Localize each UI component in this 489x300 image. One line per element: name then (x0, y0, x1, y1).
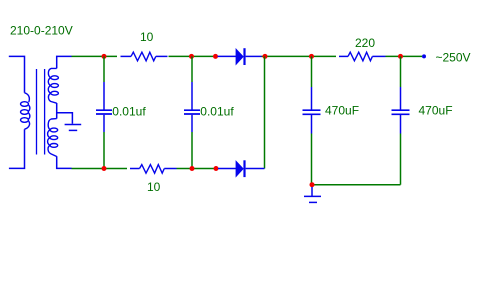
transformer T1 secondary top lead (57, 56, 72, 68)
svg-text:470uF: 470uF (325, 104, 359, 118)
resistor R3 220 left lead (339, 55, 348, 57)
transformer T1 secondary lower coil (48, 119, 58, 157)
capacitor C1 bottom lead (103, 115, 105, 132)
svg-text:0.01uf: 0.01uf (112, 104, 146, 118)
wire top rail right of D1 (green) (262, 55, 337, 57)
node junction dot before D2 (214, 166, 219, 171)
transformer T1 secondary center lead (56, 103, 58, 119)
transformer T1 primary bottom input stub wire (9, 129, 25, 168)
transformer T1 core (37, 69, 45, 155)
node junction dot bridge output (263, 54, 268, 59)
node junction dot top of C1 (102, 54, 107, 59)
capacitor C3 470uF top lead (311, 56, 313, 87)
wire top rail far right (green) (386, 55, 423, 57)
resistor R1 10 left lead (121, 55, 132, 57)
ground stem (311, 187, 313, 196)
transformer T1 secondary upper coil (48, 68, 58, 103)
resistor R2 10 right lead (164, 168, 176, 170)
wire top rail middle (green) (169, 55, 217, 57)
diode D2 cathode bar (243, 160, 245, 177)
node junction dot before D1 (213, 54, 218, 59)
transformer T1 secondary bottom lead (57, 156, 72, 168)
resistor R1 10 right lead (156, 55, 168, 57)
svg-text:470uF: 470uF (419, 104, 453, 118)
diode D2 triangle (236, 161, 243, 177)
capacitor C4 470uF top lead (400, 56, 402, 87)
capacitor C3 bottom lead (311, 115, 313, 134)
capacitor C3 plates (303, 110, 321, 114)
diode D1 triangle (236, 49, 243, 65)
svg-text:10: 10 (140, 30, 154, 44)
resistor R3 220 right lead (372, 55, 385, 57)
diode D1 right lead (246, 55, 262, 57)
capacitor C2 bottom lead (191, 115, 193, 132)
diode D2 left lead (218, 168, 236, 170)
capacitor C1 plates (96, 110, 112, 114)
node junction dot top of C3 (309, 54, 314, 59)
capacitor C4 plates (392, 110, 410, 114)
transformer T1 secondary center tap wire (57, 113, 73, 124)
resistor R1 10 zigzag (131, 52, 156, 61)
svg-text:10: 10 (147, 180, 161, 194)
ground symbol at transformer center tap (65, 125, 82, 131)
svg-text:0.01uf: 0.01uf (200, 104, 234, 118)
diode D1 left lead (218, 55, 237, 57)
diode D2 right lead (246, 168, 265, 170)
wire ground rail (green) (312, 184, 401, 186)
resistor R2 10 zigzag (140, 165, 165, 174)
wire bridge vertical (green) (264, 56, 266, 168)
node junction dot ground (310, 182, 315, 187)
wire bottom rail left (green) (72, 168, 128, 170)
capacitor C2 plates (184, 110, 200, 114)
capacitor C4 bottom lead (400, 115, 402, 134)
capacitor C1 0.01uf top lead (103, 56, 105, 82)
wire top rail left (green) (72, 55, 118, 57)
svg-text:210-0-210V: 210-0-210V (10, 24, 73, 38)
ground symbol bottom right (304, 196, 321, 202)
node junction dot bottom of C1 (102, 166, 107, 171)
transformer T1 primary coil (21, 93, 30, 129)
wire bottom rail middle (green) (177, 168, 217, 170)
node junction dot top of C4 (398, 54, 403, 59)
svg-text:~250V: ~250V (436, 50, 471, 64)
node junction dot bottom of C2 (190, 166, 195, 171)
capacitor C2 0.01uf top lead (191, 56, 193, 82)
resistor R2 10 left lead (130, 168, 140, 170)
node junction dot top of C2 (189, 54, 194, 59)
diode D1 cathode bar (243, 48, 245, 65)
svg-text:220: 220 (355, 36, 375, 50)
output terminal dot (422, 54, 426, 58)
resistor R3 220 zigzag (348, 52, 372, 61)
transformer T1 primary top input stub wire (9, 56, 25, 92)
